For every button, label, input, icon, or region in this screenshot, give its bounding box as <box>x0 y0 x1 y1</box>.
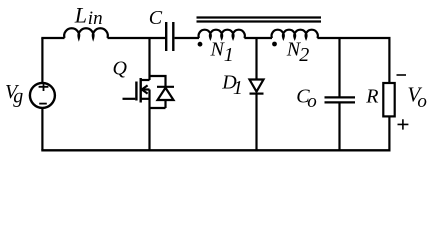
svg-text:C: C <box>149 7 163 29</box>
svg-text:in: in <box>88 8 103 29</box>
svg-text:R: R <box>365 86 378 108</box>
svg-text:o: o <box>417 91 427 112</box>
svg-text:g: g <box>13 86 23 108</box>
svg-text:2: 2 <box>299 44 309 66</box>
svg-text:1: 1 <box>233 77 243 99</box>
svg-text:Q: Q <box>113 57 128 79</box>
svg-text:o: o <box>307 91 317 112</box>
svg-text:1: 1 <box>224 44 234 66</box>
svg-text:L: L <box>74 3 87 28</box>
